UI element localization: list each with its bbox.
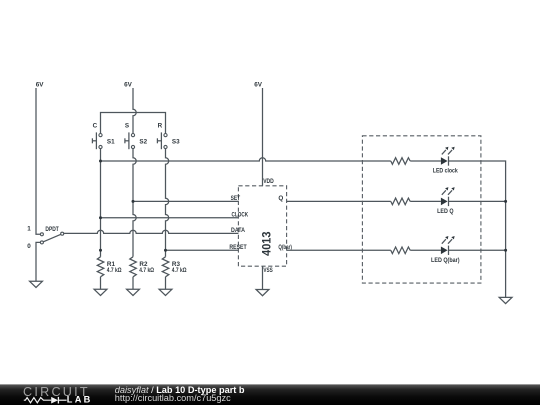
svg-text:0: 0 [27, 243, 31, 250]
resistor R2 4.7k [130, 257, 154, 277]
svg-text:VDD: VDD [263, 178, 274, 185]
svg-text:R: R [158, 123, 163, 130]
wire Q row from IC to LED Q resistor [287, 200, 391, 202]
pushbutton S1 [92, 123, 115, 150]
svg-text:DATA: DATA [231, 227, 245, 234]
node junction S1/CLOCK [99, 216, 102, 219]
wire DATA row from DPDT common to IC (hops over S1,S2,S3 columns) [64, 230, 239, 233]
LED Q [437, 187, 455, 215]
node junction right rail / LED Q [504, 200, 507, 203]
svg-text:6V: 6V [124, 81, 133, 88]
svg-text:6V: 6V [36, 81, 45, 88]
node junction S3/RESET [164, 249, 167, 252]
LED Q(bar) [431, 236, 460, 264]
svg-text:LED Q(bar): LED Q(bar) [431, 257, 460, 264]
wire R3 to ground [165, 277, 167, 290]
ground below DPDT [30, 281, 43, 287]
wire clock net row (y=161) from S1 column to LED resistor, hop over VDD wire [101, 158, 391, 161]
svg-text:SET: SET [231, 195, 241, 202]
svg-text:RESET: RESET [229, 244, 246, 251]
node junction S2/SET [132, 200, 135, 203]
ground below IC VSS [256, 290, 269, 296]
svg-text:LAB: LAB [67, 395, 93, 405]
ground below R3 [159, 289, 172, 295]
wire R2 to ground [132, 277, 134, 290]
svg-text:VSS: VSS [263, 267, 272, 274]
ground below R2 [127, 289, 140, 295]
op-amp U1: 4013 D-type flip-flop dashed body [238, 186, 286, 266]
svg-text:C: C [93, 123, 98, 130]
wire Q(bar) row from IC to LED Q(bar) resistor [287, 249, 391, 251]
svg-text:S3: S3 [172, 139, 180, 146]
ground below R1 [94, 289, 107, 295]
svg-text:4.7 kΩ: 4.7 kΩ [139, 267, 154, 274]
svg-text:1: 1 [27, 226, 31, 233]
wire resistor to LED Q(bar) anode [410, 249, 441, 251]
svg-text:CLOCK: CLOCK [232, 212, 249, 219]
resistor (LED Q(bar) series) [391, 247, 410, 254]
wire S2 column down to R2 (hops at rows 161 and 217.7) [133, 149, 136, 257]
svg-text:S2: S2 [139, 139, 147, 146]
svg-text:LED clock: LED clock [433, 168, 458, 175]
resistor R3 4.7k [162, 257, 186, 277]
resistor (LED clock series) [391, 158, 410, 165]
wire 6V V3 down to IC VDD [262, 88, 264, 186]
wire resistor to LED Q anode [410, 200, 441, 202]
FOOTER [0, 384, 540, 405]
wire top rail connecting S1 and S3 tops [101, 113, 166, 134]
node junction R1 column [99, 249, 102, 252]
svg-text:LED Q: LED Q [437, 208, 453, 215]
ground bottom right [499, 297, 512, 303]
wire RESET row from S3 column to IC [166, 249, 239, 251]
node junction S1/clock rail [99, 160, 102, 163]
wire LED Q cathode to right rail [449, 200, 506, 202]
resistor R1 4.7k [97, 257, 121, 277]
pushbutton S3 [157, 123, 180, 150]
svg-text:http://circuitlab.com/c7u5gzc: http://circuitlab.com/c7u5gzc [115, 393, 231, 403]
LED clock [433, 147, 458, 175]
node junction right rail / LED Q(bar) [504, 249, 507, 252]
wire resistor to LED clock anode [410, 160, 441, 162]
switch DPDT SW1 [27, 226, 64, 250]
svg-text:Q: Q [278, 195, 283, 202]
svg-text:4.7 kΩ: 4.7 kΩ [107, 267, 122, 274]
wire SET row from S2 column to IC [133, 200, 238, 202]
logo diode [51, 397, 58, 404]
wire R1 to ground [100, 277, 102, 290]
wire 6V V1 down to DPDT throw 1 [36, 88, 40, 234]
svg-text:S1: S1 [107, 139, 115, 146]
svg-text:6V: 6V [254, 82, 263, 89]
wire S3 column down to R3 (hops at rows 161, 201.4, 217.7) [166, 149, 169, 257]
wire CLOCK row from S1 column to IC [101, 217, 239, 219]
wire VSS to ground [262, 266, 264, 289]
wire DPDT throw 0 to ground [36, 242, 40, 281]
wire S1 column down to R1 [100, 149, 102, 257]
wire LED Q(bar) cathode to right rail [449, 249, 506, 251]
svg-text:4013: 4013 [260, 231, 274, 256]
svg-text:DPDT: DPDT [45, 226, 59, 233]
pushbutton S2 [125, 123, 148, 150]
wire 6V V2 down to S2 (hop over top rail) [133, 88, 136, 134]
svg-text:S: S [125, 123, 129, 130]
wire LED clock cathode to right rail and down to ground [449, 161, 506, 297]
svg-text:4.7 kΩ: 4.7 kΩ [172, 267, 187, 274]
logo resistor zigzag [24, 398, 51, 403]
resistor (LED Q series) [391, 198, 410, 205]
LED group dashed enclosure [362, 136, 481, 283]
